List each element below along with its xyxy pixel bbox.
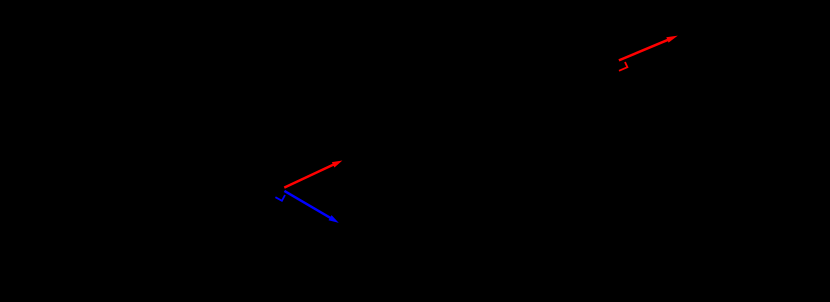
right-angle mark at base of blue arrow xyxy=(275,195,285,201)
right-angle mark at base of upper red arrow xyxy=(619,62,627,71)
velocity vector v1 (red arrow, lower point) xyxy=(284,161,342,188)
velocity vector v2 (red arrow, upper right) xyxy=(619,36,678,61)
acceleration vector a (blue arrow, lower point) xyxy=(284,191,338,223)
